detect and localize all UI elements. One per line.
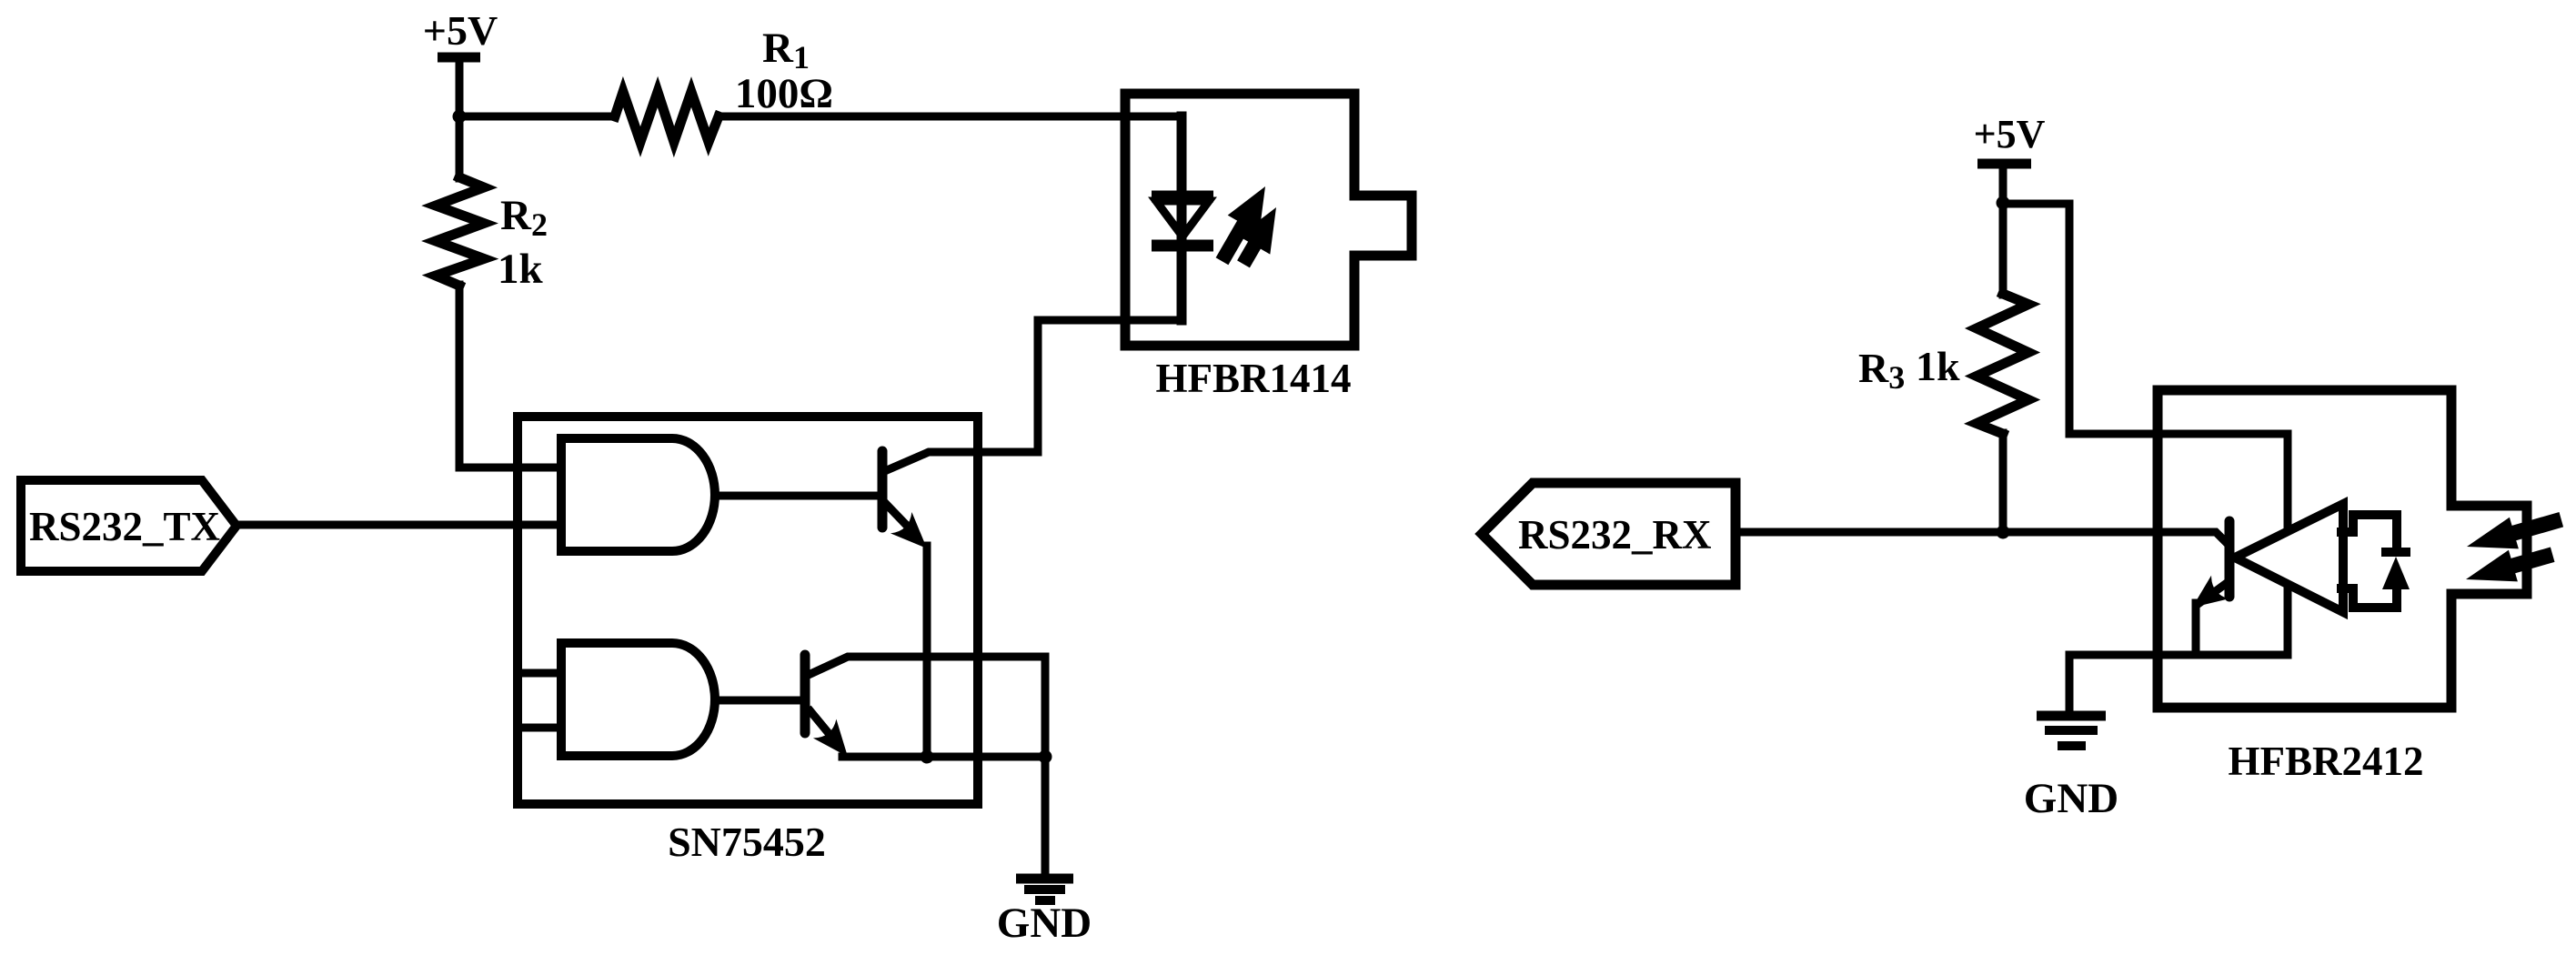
wire R1 to HFBR1414 LED bbox=[719, 113, 1182, 121]
power +5V (right) bbox=[1974, 112, 2046, 295]
svg-text:RS232_TX: RS232_TX bbox=[29, 504, 220, 549]
wire to GND bbox=[1041, 657, 1050, 874]
LED D1 lead bbox=[1177, 116, 1187, 320]
wire HFBR1414 cathode to Q1 collector bbox=[1034, 320, 1042, 452]
svg-text:1k: 1k bbox=[1916, 343, 1960, 389]
wire +5V to R1 bbox=[459, 113, 612, 121]
svg-text:GND: GND bbox=[997, 900, 1092, 947]
wire rail to GND bbox=[2066, 655, 2074, 711]
power +5V (left) bbox=[423, 7, 498, 116]
wire RS232_TX to gate input bbox=[236, 521, 561, 529]
phototransistor Q3 bbox=[2192, 521, 2229, 655]
wire G2 output to Q2 base bbox=[715, 697, 800, 705]
node junction Q1 emitter bbox=[921, 750, 934, 764]
wire G1 output to Q1 base bbox=[715, 492, 878, 500]
wire R2 to gate input bbox=[459, 285, 561, 467]
amplifier triangle bbox=[2235, 504, 2343, 612]
svg-text:1k: 1k bbox=[498, 246, 544, 293]
and-gate G1 (top) bbox=[561, 438, 715, 551]
wire LED cathode to down wire bbox=[1038, 317, 1182, 325]
svg-text:RS232_RX: RS232_RX bbox=[1518, 512, 1712, 558]
wire junction to R2 bbox=[456, 116, 464, 178]
LED emission arrows bbox=[1216, 186, 1276, 267]
resistor R3 bbox=[1977, 294, 2028, 434]
svg-text:+5V: +5V bbox=[423, 7, 498, 54]
svg-text:HFBR2412: HFBR2412 bbox=[2228, 739, 2423, 784]
LED D1 bbox=[1152, 196, 1213, 246]
port RS232_RX bbox=[1482, 483, 1736, 585]
gate G2 input stubs bbox=[518, 669, 561, 678]
svg-text:SN75452: SN75452 bbox=[668, 819, 826, 865]
resistor R2 bbox=[436, 177, 484, 286]
module HFBR2412 bbox=[2158, 390, 2527, 708]
svg-text:100Ω: 100Ω bbox=[735, 70, 833, 117]
Vcc rail bottom (gnd rail) bbox=[2069, 651, 2288, 659]
IC box SN75452 bbox=[518, 417, 978, 804]
wire Q1 emitter down bbox=[923, 546, 931, 757]
node junction GND wire bbox=[1039, 750, 1052, 764]
ground (left) bbox=[997, 879, 1092, 947]
photodiode D2 bbox=[2381, 548, 2410, 557]
resistor R1 bbox=[615, 92, 719, 142]
node junction R3/RX bbox=[1997, 526, 2010, 539]
and-gate G2 (bottom) bbox=[561, 643, 715, 756]
wire +5V branch to Vcc rail bbox=[2003, 204, 2288, 655]
wire Q2 emitter line bbox=[842, 753, 1045, 761]
wire R3 to RX line bbox=[1999, 433, 2007, 532]
module HFBR1414 bbox=[1125, 94, 1412, 346]
incoming light arrows bbox=[2466, 512, 2563, 581]
node junction +5V right bbox=[1997, 196, 2010, 210]
transistor Q1 bbox=[882, 451, 1038, 548]
svg-text:GND: GND bbox=[2024, 775, 2118, 822]
ground (right) bbox=[2024, 716, 2118, 822]
wire RS232_RX to phototransistor bbox=[1736, 532, 2228, 544]
svg-text:HFBR1414: HFBR1414 bbox=[1155, 356, 1351, 401]
svg-text:+5V: +5V bbox=[1974, 112, 2046, 156]
port RS232_TX bbox=[21, 480, 236, 571]
transistor Q2 bbox=[805, 655, 1045, 757]
photodiode box bbox=[2341, 515, 2397, 608]
node junction +5V/R1/R2 bbox=[453, 110, 467, 124]
